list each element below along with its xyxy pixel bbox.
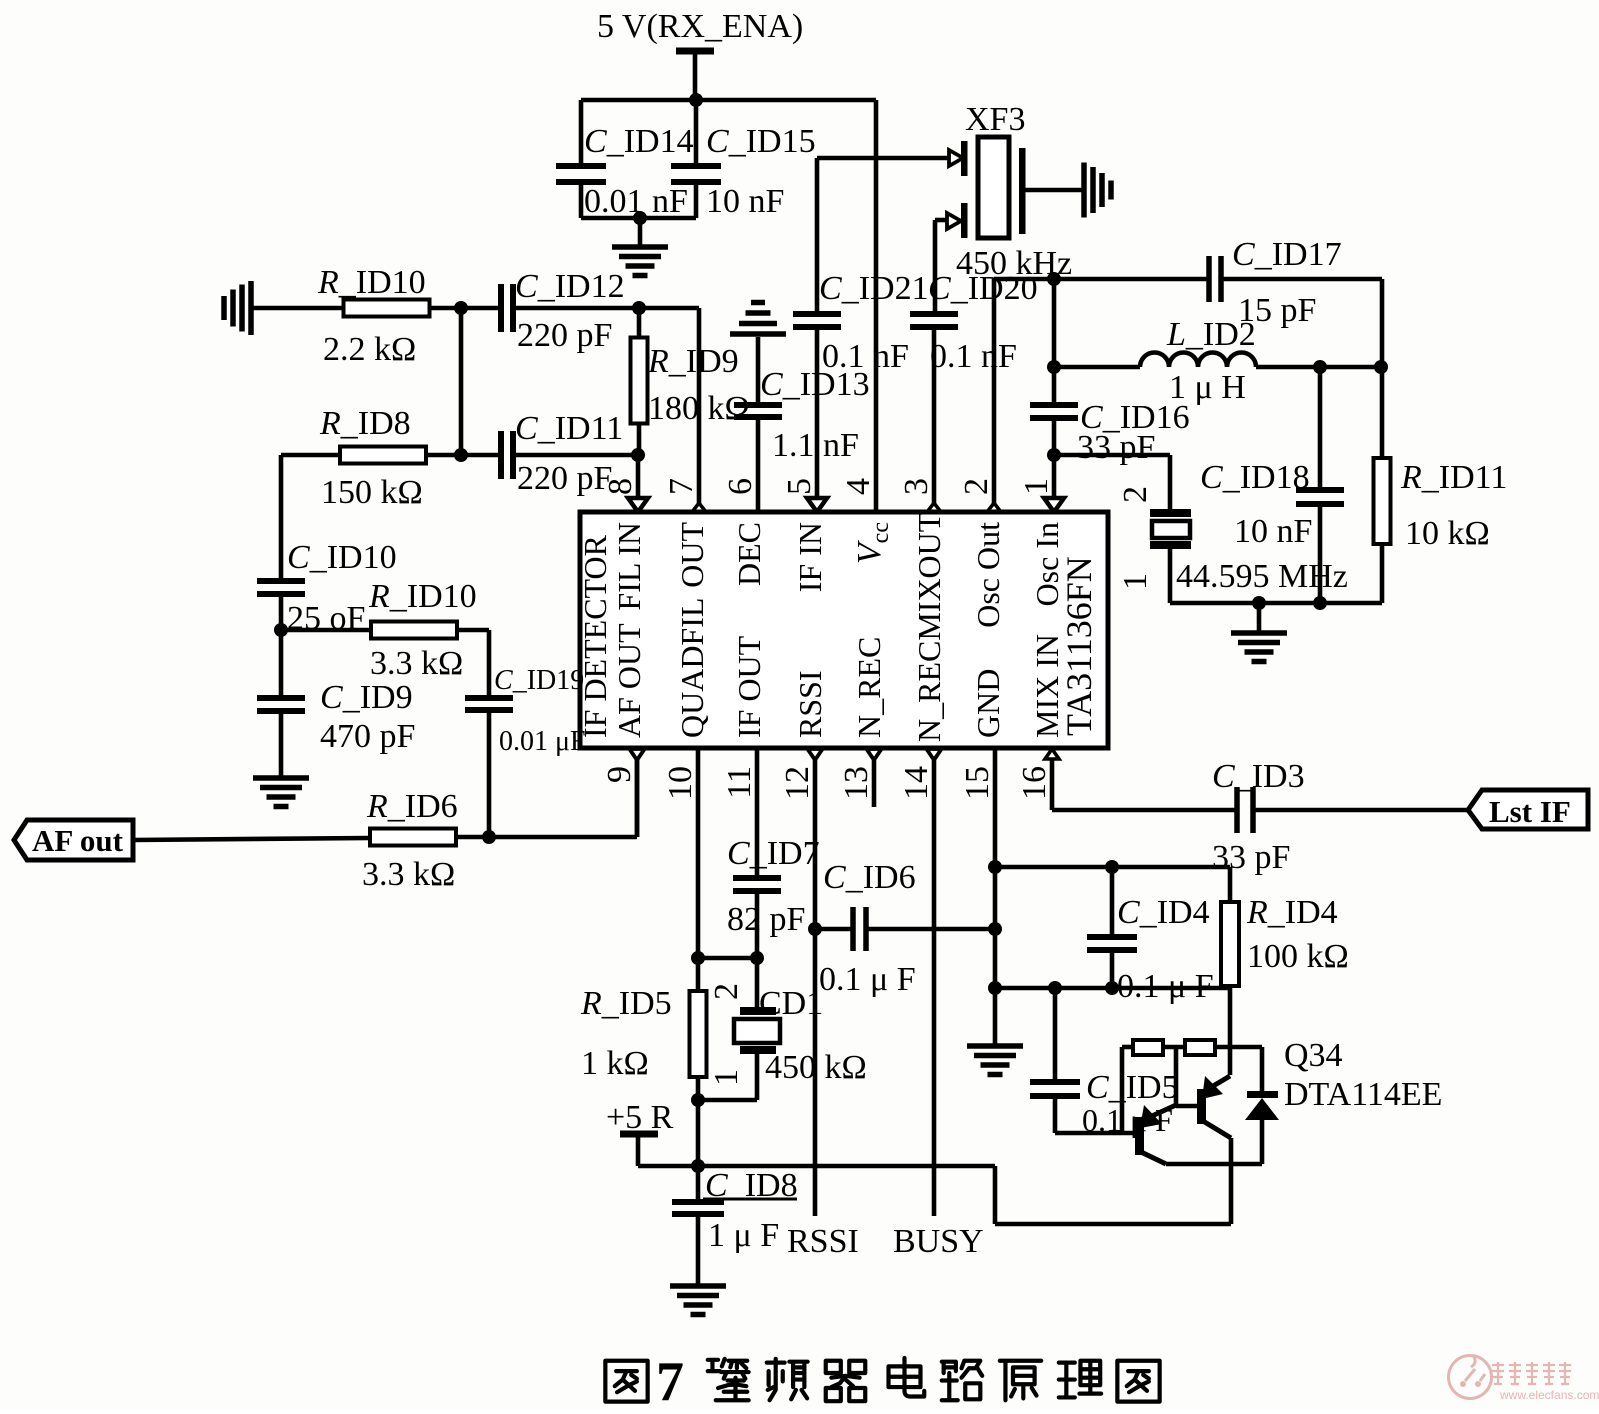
svg-text:N_REC: N_REC bbox=[851, 637, 887, 738]
svg-text:1 kΩ: 1 kΩ bbox=[581, 1045, 649, 1082]
svg-text:C_ID11: C_ID11 bbox=[515, 410, 623, 447]
svg-text:0.1 μ F: 0.1 μ F bbox=[819, 961, 916, 998]
svg-text:R_ID10: R_ID10 bbox=[368, 578, 477, 615]
svg-text:220 pF: 220 pF bbox=[517, 460, 612, 497]
svg-text:44.595 MHz: 44.595 MHz bbox=[1176, 558, 1348, 595]
svg-text:3: 3 bbox=[898, 478, 935, 495]
svg-text:0.1 μ F: 0.1 μ F bbox=[1082, 1102, 1173, 1138]
svg-text:10 nF: 10 nF bbox=[1234, 513, 1312, 550]
svg-text:GND: GND bbox=[970, 669, 1006, 738]
svg-text:C_ID20: C_ID20 bbox=[928, 270, 1038, 307]
svg-text:XF3: XF3 bbox=[965, 101, 1025, 138]
svg-text:C_ID21: C_ID21 bbox=[819, 270, 929, 307]
svg-text:N_RECMIXOUT: N_RECMIXOUT bbox=[911, 512, 947, 742]
svg-text:10 kΩ: 10 kΩ bbox=[1405, 515, 1490, 552]
svg-text:CD1: CD1 bbox=[759, 985, 823, 1022]
svg-text:Q34: Q34 bbox=[1284, 1037, 1343, 1074]
svg-text:6: 6 bbox=[722, 478, 759, 495]
svg-text:82 pF: 82 pF bbox=[727, 901, 805, 938]
svg-text:0.1 μ F: 0.1 μ F bbox=[1117, 968, 1214, 1005]
svg-text:C_ID5: C_ID5 bbox=[1086, 1069, 1179, 1106]
svg-text:1 μ F: 1 μ F bbox=[708, 1217, 779, 1254]
svg-text:R_ID5: R_ID5 bbox=[580, 985, 672, 1022]
svg-text:180 kΩ: 180 kΩ bbox=[648, 390, 750, 427]
svg-text:0.01 nF: 0.01 nF bbox=[584, 183, 688, 220]
svg-text:9: 9 bbox=[601, 766, 638, 783]
svg-text:IF IN: IF IN bbox=[792, 522, 828, 592]
svg-text:2: 2 bbox=[1117, 486, 1154, 503]
svg-text:R_ID8: R_ID8 bbox=[319, 405, 411, 442]
svg-text:RSSI: RSSI bbox=[792, 670, 828, 738]
svg-text:R_ID9: R_ID9 bbox=[647, 343, 739, 380]
svg-text:5: 5 bbox=[781, 478, 818, 495]
svg-text:C_ID14: C_ID14 bbox=[584, 123, 694, 160]
svg-text:7: 7 bbox=[663, 478, 700, 495]
svg-text:2: 2 bbox=[708, 983, 745, 1000]
svg-text:C_ID7: C_ID7 bbox=[727, 835, 820, 872]
svg-text:0.01 μF: 0.01 μF bbox=[499, 726, 586, 757]
svg-text:+5 R: +5 R bbox=[606, 1099, 674, 1136]
svg-text:220 pF: 220 pF bbox=[517, 317, 612, 354]
svg-text:15: 15 bbox=[959, 766, 996, 800]
svg-text:IF OUT: IF OUT bbox=[731, 635, 767, 738]
svg-text:C_ID3: C_ID3 bbox=[1212, 758, 1305, 795]
svg-text:RSSI: RSSI bbox=[787, 1223, 859, 1260]
svg-text:C_ID19: C_ID19 bbox=[494, 665, 584, 696]
svg-text:3.3 kΩ: 3.3 kΩ bbox=[362, 856, 455, 893]
svg-text:C_ID12: C_ID12 bbox=[515, 268, 625, 305]
svg-text:1: 1 bbox=[1018, 478, 1055, 495]
svg-text:0.1 nF: 0.1 nF bbox=[930, 338, 1017, 375]
svg-text:10 nF: 10 nF bbox=[706, 183, 784, 220]
svg-text:C_ID17: C_ID17 bbox=[1232, 236, 1342, 273]
svg-text:AF out: AF out bbox=[32, 823, 124, 858]
svg-text:TA31136FN: TA31136FN bbox=[1059, 556, 1099, 736]
svg-text:3.3 kΩ: 3.3 kΩ bbox=[370, 645, 463, 682]
svg-text:16: 16 bbox=[1016, 766, 1053, 800]
svg-text:7: 7 bbox=[656, 1351, 684, 1409]
svg-text:DTA114EE: DTA114EE bbox=[1284, 1076, 1442, 1113]
svg-text:QUADFIL: QUADFIL bbox=[674, 598, 710, 738]
svg-text:1.1 nF: 1.1 nF bbox=[772, 427, 859, 464]
svg-text:1: 1 bbox=[708, 1069, 745, 1086]
svg-text:C_ID9: C_ID9 bbox=[320, 679, 413, 716]
svg-text:OUT: OUT bbox=[674, 522, 710, 588]
svg-text:450 kΩ: 450 kΩ bbox=[765, 1049, 867, 1086]
svg-text:13: 13 bbox=[838, 766, 875, 800]
svg-text:150 kΩ: 150 kΩ bbox=[321, 474, 423, 511]
svg-text:R_ID4: R_ID4 bbox=[1246, 894, 1338, 931]
svg-text:R_ID11: R_ID11 bbox=[1400, 459, 1507, 496]
svg-text:10: 10 bbox=[662, 766, 699, 800]
svg-text:2.2 kΩ: 2.2 kΩ bbox=[323, 331, 416, 368]
svg-text:L_ID2: L_ID2 bbox=[1166, 316, 1256, 353]
svg-text:Osc Out: Osc Out bbox=[970, 522, 1006, 628]
svg-text:33 pF: 33 pF bbox=[1077, 429, 1155, 466]
svg-text:BUSY: BUSY bbox=[893, 1223, 984, 1260]
svg-text:C_ID4: C_ID4 bbox=[1117, 894, 1210, 931]
svg-text:C_ID6: C_ID6 bbox=[823, 859, 916, 896]
svg-text:C_ID15: C_ID15 bbox=[706, 123, 816, 160]
svg-text:8: 8 bbox=[602, 478, 639, 495]
svg-text:R_ID6: R_ID6 bbox=[366, 788, 458, 825]
svg-text:5 V(RX_ENA): 5 V(RX_ENA) bbox=[597, 8, 803, 45]
svg-text:1: 1 bbox=[1117, 573, 1154, 590]
svg-text:FIL IN: FIL IN bbox=[611, 522, 647, 611]
svg-text:Lst IF: Lst IF bbox=[1489, 794, 1571, 829]
svg-text:25 oF: 25 oF bbox=[287, 600, 365, 637]
svg-text:470 pF: 470 pF bbox=[320, 718, 415, 755]
svg-text:11: 11 bbox=[721, 766, 758, 799]
svg-text:R_ID10: R_ID10 bbox=[317, 264, 426, 301]
svg-text:IF DETECTOR: IF DETECTOR bbox=[577, 534, 613, 738]
svg-text:www.elecfans.com: www.elecfans.com bbox=[1499, 1388, 1599, 1402]
svg-text:4: 4 bbox=[840, 478, 877, 495]
svg-text:AF OUT: AF OUT bbox=[611, 623, 647, 738]
svg-text:2: 2 bbox=[958, 478, 995, 495]
svg-text:0.1 nF: 0.1 nF bbox=[822, 338, 909, 375]
svg-text:100 kΩ: 100 kΩ bbox=[1247, 938, 1349, 975]
svg-text:C_ID18: C_ID18 bbox=[1200, 459, 1310, 496]
svg-text:33 pF: 33 pF bbox=[1212, 839, 1290, 876]
svg-text:12: 12 bbox=[779, 766, 816, 800]
svg-text:C_ID10: C_ID10 bbox=[287, 539, 397, 576]
svg-text:14: 14 bbox=[898, 766, 935, 800]
svg-text:DEC: DEC bbox=[731, 522, 767, 586]
